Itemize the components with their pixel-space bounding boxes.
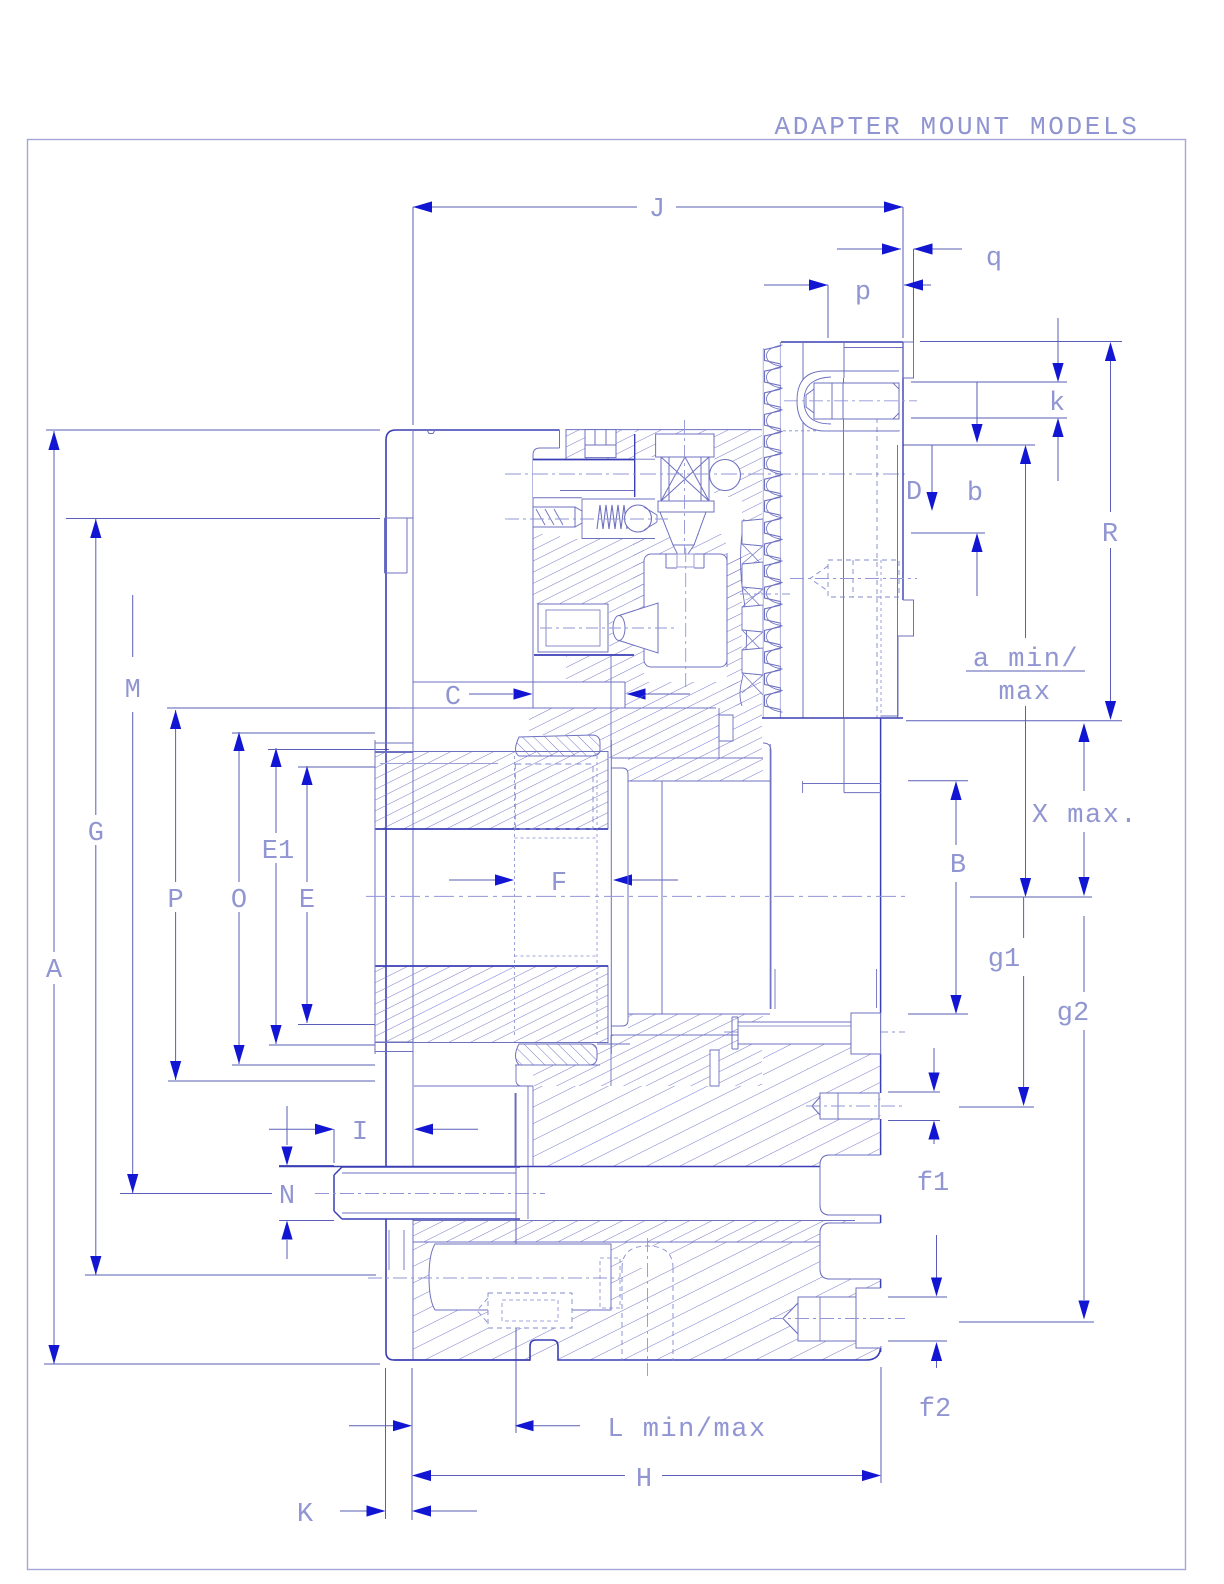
pinion housing hatch top-left bbox=[566, 430, 635, 459]
svg-text:M: M bbox=[125, 676, 141, 706]
svg-text:N: N bbox=[279, 1182, 295, 1212]
hidden vertical bolt bbox=[622, 1246, 673, 1361]
svg-text:B: B bbox=[950, 851, 966, 881]
lower thin plate hatched bbox=[413, 1220, 853, 1242]
dimension K bbox=[340, 1510, 367, 1512]
dimension A bbox=[53, 431, 55, 952]
top washer bbox=[516, 735, 601, 756]
svg-text:O: O bbox=[231, 886, 247, 916]
svg-text:G: G bbox=[88, 819, 104, 849]
rounded front corner bbox=[763, 743, 771, 1009]
plunger spring bbox=[597, 505, 627, 529]
hub keyway hidden bbox=[515, 764, 593, 829]
hub left retainer plates bbox=[375, 743, 413, 753]
screw f2 redraw bbox=[856, 1288, 881, 1348]
dimension M bbox=[132, 595, 134, 657]
pinion journal cone bbox=[619, 603, 658, 653]
dimension B bbox=[908, 780, 968, 782]
bottom band hatched bbox=[533, 1086, 881, 1166]
jaw serrated teeth bbox=[765, 342, 781, 718]
svg-text:E1: E1 bbox=[262, 837, 294, 867]
dimension f1 bbox=[933, 1048, 935, 1073]
dimension O bbox=[238, 732, 240, 882]
socket S2 redraw bbox=[820, 1223, 881, 1279]
hidden screw centerline bbox=[790, 578, 917, 580]
dimension E bbox=[306, 766, 308, 882]
plunger screw bbox=[533, 507, 575, 527]
svg-text:f1: f1 bbox=[917, 1169, 949, 1199]
bearing square bbox=[661, 457, 709, 501]
svg-text:A: A bbox=[46, 956, 63, 986]
dimension g2 bbox=[1083, 916, 1085, 992]
dimension L min/max bbox=[349, 1425, 394, 1427]
handle centerline bbox=[315, 1193, 545, 1195]
dimension k bbox=[911, 381, 1067, 383]
f1 centerline bbox=[806, 1105, 905, 1107]
upper axis centerline bbox=[505, 473, 905, 475]
plunger centerline bbox=[505, 518, 668, 520]
dimension q bbox=[837, 248, 901, 250]
bottom cavity bbox=[429, 1244, 611, 1310]
dimension D bbox=[976, 382, 978, 424]
plunger bore bbox=[560, 499, 655, 539]
gear centerline bbox=[685, 548, 687, 690]
lock screw bbox=[585, 430, 616, 458]
screw f1 redraw bbox=[820, 1093, 879, 1119]
staircase hatch top bbox=[716, 682, 762, 758]
dimension p bbox=[764, 284, 828, 286]
dimension F bbox=[449, 879, 496, 881]
dimension a min/max bbox=[1020, 445, 1031, 464]
hidden set screw bbox=[488, 1293, 572, 1328]
scroll plate teeth bbox=[740, 519, 747, 706]
left bracket stubs bbox=[388, 1230, 390, 1270]
dimension C bbox=[469, 693, 513, 695]
hub lower step bbox=[515, 1064, 600, 1066]
hub bore edges bbox=[375, 828, 608, 830]
svg-text:q: q bbox=[986, 244, 1002, 274]
lower step hatch wedge bbox=[533, 1044, 611, 1086]
bearing ball bbox=[710, 460, 741, 491]
top face notches bbox=[427, 430, 435, 434]
svg-text:f2: f2 bbox=[919, 1395, 951, 1425]
svg-text:L min/max: L min/max bbox=[607, 1415, 766, 1445]
svg-text:g2: g2 bbox=[1057, 999, 1089, 1029]
dimension g1 bbox=[1023, 897, 1025, 938]
main axis centerline bbox=[366, 895, 905, 897]
bevel gear body bbox=[644, 554, 727, 667]
left body wall outer line bbox=[386, 430, 560, 440]
svg-text:max: max bbox=[998, 678, 1051, 708]
socket S1 bbox=[820, 1155, 881, 1215]
dimension I bbox=[269, 1128, 316, 1130]
handle boss lines bbox=[514, 1093, 516, 1166]
pinion housing hatch right bbox=[635, 430, 762, 520]
hub bottom band hatched bbox=[375, 966, 608, 1043]
handle bar bbox=[334, 1167, 520, 1219]
lower block hatched bbox=[611, 1242, 881, 1360]
dimension f2 bbox=[936, 1235, 938, 1278]
staircase hatch bottom bbox=[719, 1035, 762, 1086]
jaw clamp screw bbox=[814, 383, 899, 419]
cover plate step bbox=[559, 430, 561, 448]
f2 centerline bbox=[770, 1318, 905, 1320]
bevel gear key bbox=[538, 604, 608, 652]
svg-text:k: k bbox=[1049, 389, 1065, 419]
jaw body bbox=[781, 341, 903, 343]
svg-text:g1: g1 bbox=[988, 945, 1020, 975]
bearing race plate bbox=[658, 501, 714, 512]
journal axis bbox=[540, 627, 676, 629]
vertical bolt centerline bbox=[647, 1238, 649, 1376]
bottom edge bbox=[394, 1340, 881, 1360]
svg-text:D: D bbox=[906, 478, 922, 508]
svg-text:H: H bbox=[636, 1465, 652, 1495]
chuck front plate bbox=[880, 718, 882, 1013]
reference line under D bbox=[911, 532, 985, 534]
dimension P bbox=[175, 710, 177, 882]
tooth pitch lines bbox=[762, 348, 764, 718]
hub spigot line bbox=[380, 763, 498, 765]
hub top band hatched bbox=[375, 752, 608, 830]
svg-text:I: I bbox=[352, 1118, 368, 1148]
plunger ball bbox=[625, 505, 652, 532]
housing top edge bbox=[566, 429, 762, 431]
hatch left of gear bbox=[609, 604, 644, 656]
svg-text:R: R bbox=[1102, 520, 1118, 550]
scroll axis stub bbox=[740, 593, 790, 595]
svg-text:E: E bbox=[299, 886, 315, 916]
svg-text:ADAPTER MOUNT MODELS: ADAPTER MOUNT MODELS bbox=[774, 112, 1139, 142]
bevel pinion funnel bbox=[660, 512, 706, 545]
pinion head bbox=[656, 434, 714, 457]
housing cavity edge bbox=[634, 434, 636, 497]
left wall boss bbox=[384, 518, 386, 573]
svg-text:F: F bbox=[551, 869, 567, 899]
jaw screw centerline bbox=[784, 400, 917, 402]
screw f1 bbox=[820, 1093, 879, 1119]
dimension H bbox=[412, 1470, 431, 1481]
scroll thread wave bbox=[767, 345, 783, 712]
hub collar bbox=[610, 740, 612, 1054]
screw f2 bbox=[856, 1288, 881, 1348]
jaw hidden screw bbox=[828, 560, 899, 597]
jaw screw slot bbox=[797, 371, 825, 431]
svg-text:X max.: X max. bbox=[1032, 801, 1138, 831]
dimension G bbox=[95, 519, 97, 815]
dimension J bbox=[413, 206, 637, 208]
svg-text:p: p bbox=[855, 278, 871, 308]
jaw right edge bbox=[902, 342, 904, 600]
mounting bolt redraw bbox=[738, 1022, 851, 1044]
set screw centerline bbox=[368, 1277, 620, 1279]
svg-text:b: b bbox=[967, 479, 983, 509]
socket S2 bbox=[820, 1223, 881, 1279]
svg-text:K: K bbox=[297, 1500, 314, 1530]
dimension N bbox=[286, 1106, 288, 1145]
left body wall inner line bbox=[412, 430, 414, 1167]
bottom washer bbox=[516, 1044, 598, 1065]
dimension R bbox=[920, 341, 1122, 343]
bolt centerline bbox=[724, 1031, 905, 1033]
ball seat cone bbox=[644, 507, 657, 515]
svg-text:P: P bbox=[167, 886, 183, 916]
gear head slot bbox=[665, 554, 667, 568]
bevel mesh hatched band bbox=[727, 554, 742, 706]
mounting bolt bbox=[738, 1022, 851, 1044]
dimension E1 bbox=[275, 748, 277, 833]
hub hidden thread lines bbox=[514, 756, 516, 1038]
dimension X max bbox=[1078, 723, 1089, 742]
plunger housing white band bbox=[533, 460, 635, 498]
C groove region bbox=[635, 458, 655, 460]
socket S1 redraw bbox=[820, 1155, 881, 1215]
svg-text:J: J bbox=[649, 195, 665, 225]
pinion centerline bbox=[684, 420, 686, 600]
